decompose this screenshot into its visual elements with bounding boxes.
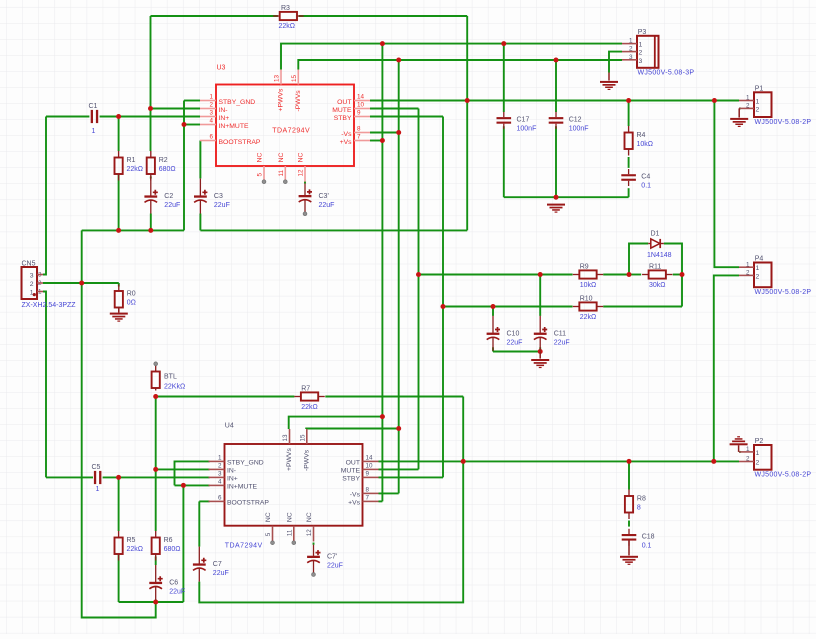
U3 pin 3 IN+ — [200, 110, 229, 122]
svg-text:6: 6 — [209, 134, 213, 141]
svg-text:2: 2 — [756, 106, 760, 113]
svg-text:0.1: 0.1 — [642, 543, 652, 550]
svg-text:R8: R8 — [637, 496, 646, 503]
wire C18 ground lead — [628, 540, 630, 555]
wire U4 pin1/pin4 column vertical — [182, 485, 184, 602]
wire R3 right to feedback corner — [299, 15, 467, 17]
wire P3 pin2 to ground — [609, 52, 622, 73]
wire C3 bottom — [199, 214, 201, 231]
U3 pin 2 IN- — [200, 102, 228, 114]
wire P2 pin1 tick — [739, 451, 741, 453]
wire C11 ground lead — [539, 352, 541, 359]
connector P3 pin 2 — [622, 46, 643, 57]
junction C10 top — [491, 304, 496, 309]
svg-text:22KkΩ: 22KkΩ — [164, 384, 185, 391]
wire decoupling ground rail — [504, 196, 629, 198]
wire R9 to R11 node — [603, 274, 629, 276]
svg-text:8: 8 — [366, 486, 370, 493]
capacitor C10 — [487, 316, 523, 351]
svg-text:C2: C2 — [164, 193, 173, 200]
svg-text:MUTE: MUTE — [341, 468, 361, 475]
svg-text:22uF: 22uF — [213, 570, 229, 577]
wire C7 top to U4 pin6 — [198, 501, 200, 546]
CN5 pin 1 — [30, 288, 43, 296]
svg-text:R0: R0 — [127, 291, 136, 298]
wire R0 to ground — [118, 307, 120, 312]
svg-text:R3: R3 — [281, 5, 290, 12]
svg-text:680Ω: 680Ω — [164, 546, 181, 553]
capacitor C5 — [92, 464, 102, 493]
U3 pin 11 NC — [278, 152, 285, 181]
wire C1 left — [46, 116, 89, 118]
svg-text:30kΩ: 30kΩ — [649, 282, 666, 289]
junction U4 pin15 net — [396, 426, 401, 431]
svg-text:R2: R2 — [159, 157, 168, 164]
wire R1 top — [118, 117, 120, 152]
svg-text:R10: R10 — [580, 296, 593, 303]
svg-text:+PWVs: +PWVs — [286, 448, 293, 471]
wire input-ground link top-bottom — [82, 230, 156, 617]
wire R7 row left — [156, 396, 295, 398]
wire input-ground net horizontal — [82, 229, 184, 231]
svg-text:NC: NC — [287, 512, 294, 522]
svg-text:C1: C1 — [89, 103, 98, 110]
junction MUTE/R9 row — [416, 272, 421, 277]
junction R9/D1/R11 — [627, 272, 632, 277]
resistor R6 — [152, 531, 181, 561]
diode D1 1N4148 — [647, 231, 672, 260]
wire CN5 pin1 down to C5 row — [43, 292, 46, 478]
connector P4 — [754, 263, 772, 288]
wire R0 top tick — [118, 283, 120, 287]
svg-text:1N4148: 1N4148 — [647, 252, 672, 259]
wire D1 left riser — [629, 244, 648, 275]
svg-text:680Ω: 680Ω — [159, 166, 176, 173]
connector P3 pin 3 — [622, 54, 643, 65]
svg-text:22uF: 22uF — [554, 339, 570, 346]
svg-text:C6: C6 — [169, 580, 178, 587]
svg-text:NC: NC — [257, 152, 264, 162]
svg-text:12: 12 — [306, 529, 313, 537]
svg-text:22kΩ: 22kΩ — [580, 314, 597, 321]
junction +Vs pin7 — [380, 138, 385, 143]
svg-text:IN-: IN- — [219, 107, 228, 114]
CN5 pin1 mark — [33, 293, 36, 296]
wire U4 bootstrap return loop — [199, 397, 463, 603]
U4 pin 11 NC — [287, 512, 294, 541]
wire R11 left lead net — [629, 274, 641, 276]
resistor R9 — [573, 264, 603, 290]
wire U3 MUTE right — [370, 108, 419, 110]
svg-text:+Vs: +Vs — [348, 500, 361, 507]
wire to U4 pin10 MUTE — [379, 468, 419, 470]
wire C12 top — [555, 60, 557, 112]
U3 pin 13 +PWVs — [274, 70, 285, 112]
svg-text:4: 4 — [218, 478, 222, 485]
junction -PWVs rail / -Vs column — [396, 58, 401, 63]
svg-text:13: 13 — [282, 434, 289, 442]
junction CN5 pin2 — [79, 281, 84, 286]
junction -PWVs rail / C12 — [554, 58, 559, 63]
resistor R11 — [642, 264, 672, 290]
U4 pin 3 IN+ — [209, 470, 238, 482]
connector CN5 — [22, 267, 38, 299]
junction U4 OUT/P2 — [711, 459, 716, 464]
wire C5 left — [46, 476, 93, 478]
wire +PWVs rail — [281, 44, 622, 70]
svg-text:C17: C17 — [517, 117, 530, 124]
svg-text:1: 1 — [756, 450, 760, 457]
svg-text:2: 2 — [756, 460, 760, 467]
wire U3 pin8 -Vs — [370, 132, 399, 134]
capacitor C2 — [144, 179, 180, 214]
wire IN- column vertical — [150, 16, 152, 151]
connector P2 pin 1 — [739, 446, 760, 457]
wire C17 bottom — [503, 126, 505, 197]
wire U3 STBY right — [370, 116, 443, 118]
wire C7' tick — [313, 543, 315, 545]
wire R4 to C4 — [628, 157, 630, 168]
svg-text:-Vs: -Vs — [350, 492, 361, 499]
capacitor C17 — [497, 112, 537, 133]
wire R7 row right — [325, 396, 463, 398]
junction pin4 column — [182, 122, 187, 127]
junction U4 OUT/bootstrap — [461, 459, 466, 464]
svg-text:8: 8 — [637, 505, 641, 512]
svg-text:22kΩ: 22kΩ — [127, 546, 144, 553]
svg-text:IN+: IN+ — [227, 476, 238, 483]
wire R10 row left — [443, 306, 573, 308]
svg-text:NC: NC — [278, 152, 285, 162]
svg-text:U4: U4 — [225, 423, 234, 430]
svg-text:2: 2 — [30, 281, 34, 288]
svg-text:WJ500V-5.08-3P: WJ500V-5.08-3P — [638, 70, 695, 77]
ground P1 — [730, 118, 748, 127]
wire C1 right to U3 pin3 IN+ — [100, 116, 200, 118]
svg-text:4: 4 — [209, 118, 213, 125]
ground decoupling rail — [547, 204, 565, 213]
svg-text:11: 11 — [287, 529, 294, 536]
wire P2 pin1 ground lead — [738, 445, 740, 452]
wire bootstrap return horizontal — [200, 229, 467, 231]
capacitor C3' — [299, 183, 335, 213]
svg-text:C7': C7' — [327, 554, 337, 561]
junction C6 bottom node — [153, 600, 158, 605]
svg-text:1: 1 — [209, 94, 213, 101]
wire U4 pin4 IN+MUTE row — [175, 484, 210, 486]
svg-text:STBY: STBY — [342, 476, 360, 483]
capacitor C6 — [149, 565, 185, 600]
capacitor C18 — [622, 529, 655, 550]
resistor R4 — [625, 126, 654, 156]
wire MUTE column vertical — [418, 109, 420, 470]
capacitor C1 — [89, 103, 99, 135]
svg-text:13: 13 — [274, 74, 281, 82]
svg-text:TDA7294V: TDA7294V — [272, 127, 310, 134]
svg-text:15: 15 — [291, 74, 298, 82]
svg-text:3: 3 — [218, 470, 222, 477]
wire R8 top — [628, 461, 630, 489]
U3 pin 9 STBY — [334, 110, 370, 122]
wire P3 pin2 ground lead — [608, 73, 610, 81]
wire D1 right riser — [664, 244, 682, 275]
connector P4 pin 1 — [739, 261, 760, 272]
wire C10 bottom — [492, 347, 494, 351]
svg-text:OUT: OUT — [346, 460, 360, 467]
unconnected C3' bottom — [303, 212, 307, 216]
wire to U4 pin8 -Vs — [379, 492, 399, 494]
wire R1 bottom — [118, 174, 120, 231]
wire U4 pin13 +PWVs link — [289, 417, 383, 429]
svg-text:U3: U3 — [217, 64, 226, 71]
resistor R10 — [573, 296, 603, 322]
svg-text:2: 2 — [209, 102, 213, 109]
svg-text:0Ω: 0Ω — [127, 300, 136, 307]
svg-text:R11: R11 — [649, 264, 661, 271]
svg-text:R7: R7 — [301, 386, 310, 393]
wire R11 right lead net — [673, 274, 682, 276]
U4 pin 5 NC — [265, 512, 272, 541]
ground P3 — [600, 81, 618, 90]
U4 pin 4 IN+MUTE — [209, 478, 258, 490]
svg-text:BOOTSTRAP: BOOTSTRAP — [219, 139, 261, 146]
svg-text:NC: NC — [298, 152, 305, 162]
wire R10 row right — [603, 306, 682, 308]
wire R9 row left — [419, 274, 573, 276]
svg-text:5: 5 — [257, 173, 264, 177]
capacitor C12 — [549, 112, 589, 133]
svg-text:1: 1 — [96, 486, 100, 493]
ground under C11 — [531, 359, 549, 368]
U3 pin 6 BOOTSTRAP — [200, 134, 261, 146]
svg-text:R6: R6 — [164, 537, 173, 544]
capacitor C7' — [307, 545, 343, 574]
svg-text:7: 7 — [357, 134, 361, 141]
svg-text:C5: C5 — [92, 464, 101, 471]
svg-text:BOOTSTRAP: BOOTSTRAP — [227, 500, 269, 507]
connector P3 pin 1 — [622, 38, 643, 49]
wire C4 bottom — [628, 188, 630, 197]
CN5 pin 2 — [30, 280, 43, 288]
wire C12 bottom — [555, 126, 557, 197]
junction ground rail — [554, 195, 559, 200]
wire C11 top — [539, 275, 541, 316]
junction IN- / feedback — [148, 106, 153, 111]
U4 pin 15 -PWVs — [300, 429, 311, 471]
wire +Vs column vertical — [381, 44, 383, 502]
svg-text:+Vs: +Vs — [340, 139, 353, 146]
junction C1/R1 — [116, 114, 121, 119]
resistor R8 — [625, 490, 646, 520]
wire U4 pin1 STBY_GND — [175, 461, 210, 485]
svg-text:NC: NC — [265, 512, 272, 522]
resistor R1 — [115, 151, 144, 181]
svg-text:14: 14 — [357, 94, 365, 101]
junction C11 ground — [538, 349, 543, 354]
U4 pin 2 IN- — [209, 462, 237, 474]
svg-text:1: 1 — [756, 265, 760, 272]
svg-text:11: 11 — [278, 169, 285, 176]
svg-text:22uF: 22uF — [507, 339, 523, 346]
wire C17 top — [503, 44, 505, 112]
svg-text:-PWVs: -PWVs — [304, 449, 311, 471]
svg-text:15: 15 — [300, 434, 307, 442]
U3 pin 15 -PWVs — [291, 70, 302, 112]
svg-text:IN-: IN- — [227, 468, 236, 475]
U4 pin 6 BOOTSTRAP — [209, 494, 270, 506]
svg-text:22uF: 22uF — [319, 202, 335, 209]
svg-text:STBY_GND: STBY_GND — [227, 460, 264, 467]
wire pin1/pin4 column vertical — [183, 101, 185, 231]
svg-text:-PWVs: -PWVs — [295, 90, 302, 112]
svg-text:12: 12 — [298, 169, 305, 177]
wire U4 pin2 IN- — [156, 468, 210, 470]
svg-text:R9: R9 — [580, 264, 589, 271]
junction R11/D1 right — [680, 272, 685, 277]
wire BTL node down to R6 — [155, 397, 157, 532]
wire U4 pin15 -PWVs link — [306, 428, 399, 431]
svg-text:D1: D1 — [651, 231, 660, 238]
svg-text:7: 7 — [366, 494, 370, 501]
wire R6 to C6 — [155, 557, 157, 566]
ground under C18 — [620, 556, 638, 565]
svg-text:IN+: IN+ — [219, 115, 230, 122]
CN5 pin 3 — [30, 271, 43, 279]
wire U3 pin7 +Vs — [370, 140, 382, 142]
junction U4 OUT/R8 — [627, 459, 632, 464]
unconnected U4 pin5 — [271, 541, 275, 545]
svg-text:22uF: 22uF — [327, 563, 343, 570]
wire P1 pin2 tick — [739, 107, 741, 109]
resistor BTL — [152, 366, 186, 391]
U4 pin 13 +PWVs — [282, 429, 293, 471]
U3 pin 4 IN+MUTE — [200, 118, 249, 130]
capacitor C11 — [534, 316, 570, 351]
U3 pin 7 +Vs — [340, 134, 370, 146]
unconnected U4 pin11 — [292, 541, 296, 545]
wire R3 left to IN- column — [151, 15, 278, 17]
svg-text:R5: R5 — [127, 537, 136, 544]
wire R4 top — [628, 101, 630, 127]
junction U4 pin13 net — [380, 414, 385, 419]
svg-text:STBY_GND: STBY_GND — [219, 99, 256, 106]
capacitor C3 — [194, 179, 230, 214]
svg-text:P3: P3 — [638, 29, 647, 36]
svg-text:9: 9 — [357, 110, 361, 117]
resistor R3 — [273, 12, 303, 20]
svg-text:6: 6 — [218, 494, 222, 501]
wire -Vs column vertical — [398, 60, 400, 493]
svg-text:OUT: OUT — [337, 99, 351, 106]
U3 pin 14 OUT — [337, 94, 370, 106]
connector P2 — [754, 445, 772, 470]
wire U3 pin6 BOOTSTRAP down to C3 — [199, 141, 201, 179]
U4 pin 1 STBY_GND — [209, 454, 264, 466]
wire -PWVs rail — [298, 60, 622, 70]
wire R8 to C18 — [628, 521, 630, 527]
svg-text:5: 5 — [265, 532, 272, 536]
svg-text:C10: C10 — [507, 330, 520, 337]
capacitor C4 — [621, 169, 651, 190]
wire C5 right to U4 pin3 IN+ — [103, 476, 210, 478]
wire U3 OUT row — [370, 100, 739, 102]
wire to U3 pin2 IN- — [151, 108, 201, 110]
svg-text:10: 10 — [357, 102, 365, 109]
wire to U4 pin9 STBY — [379, 476, 444, 478]
unconnected BTL top — [154, 362, 158, 366]
resistor R0 — [115, 285, 136, 315]
wire STBY column vertical — [442, 117, 444, 478]
unconnected U3 pin5 — [262, 180, 266, 184]
wire C2 bottom — [150, 214, 152, 231]
svg-text:0.1: 0.1 — [641, 183, 651, 190]
wire R11 node down to R10 row — [681, 275, 683, 307]
svg-text:P1: P1 — [755, 86, 764, 93]
junction C5/R5 — [116, 475, 121, 480]
U4 pin 10 MUTE — [341, 462, 379, 474]
wire U3 pin1 STBY_GND — [184, 100, 200, 102]
wire bottom input-ground net horizontal — [119, 601, 184, 603]
svg-text:1: 1 — [639, 42, 643, 49]
svg-text:BTL: BTL — [164, 373, 177, 380]
wire R5 top — [118, 477, 120, 531]
junction OUT/feedback — [465, 98, 470, 103]
svg-text:IN+MUTE: IN+MUTE — [219, 123, 249, 130]
wire feedback column x=467 — [466, 16, 468, 230]
svg-text:1: 1 — [92, 128, 96, 135]
svg-text:2: 2 — [756, 273, 760, 280]
svg-text:MUTE: MUTE — [332, 107, 352, 114]
svg-text:3: 3 — [639, 58, 643, 65]
wire CN5 pin2 row to R0 — [43, 282, 119, 284]
svg-text:C3: C3 — [214, 193, 223, 200]
svg-text:10kΩ: 10kΩ — [580, 282, 597, 289]
connector P1 pin 1 — [739, 95, 760, 106]
svg-text:C3': C3' — [319, 193, 329, 200]
junction +PWVs rail / C17 — [501, 41, 506, 46]
wire C10 top — [492, 307, 494, 316]
ground under R0 — [110, 313, 128, 322]
svg-text:3: 3 — [30, 273, 34, 280]
junction OUT/R4 — [626, 98, 631, 103]
svg-text:WJ500V-5.08-2P: WJ500V-5.08-2P — [755, 289, 812, 296]
svg-text:22uF: 22uF — [164, 202, 180, 209]
svg-text:WJ500V-5.08-2P: WJ500V-5.08-2P — [755, 472, 812, 479]
svg-text:22uF: 22uF — [214, 202, 230, 209]
wire C11 bottom — [539, 347, 541, 351]
U3 pin 1 STBY_GND — [200, 94, 255, 106]
wire to U3 pin4 IN+MUTE — [184, 124, 200, 126]
svg-text:10: 10 — [366, 462, 374, 469]
svg-text:100nF: 100nF — [569, 126, 589, 133]
junction U4 IN- node — [153, 467, 158, 472]
wire OUT to P4 pin1 — [714, 101, 739, 268]
U4 pin 7 +Vs — [348, 494, 378, 506]
U4 pin 14 OUT — [346, 454, 379, 466]
junction OUT/P1 — [712, 98, 717, 103]
svg-text:-Vs: -Vs — [341, 131, 352, 138]
svg-text:CN5: CN5 — [22, 260, 36, 267]
wire R5 bottom — [118, 554, 120, 602]
U4 pin 9 STBY — [342, 470, 378, 482]
connector P1 — [754, 92, 772, 117]
svg-text:1: 1 — [218, 454, 222, 461]
U4 pin 8 -Vs — [350, 486, 379, 498]
svg-text:9: 9 — [366, 470, 370, 477]
wire U4 OUT row — [379, 460, 740, 462]
svg-text:C18: C18 — [642, 534, 655, 541]
junction U4 pin4 column — [181, 483, 186, 488]
